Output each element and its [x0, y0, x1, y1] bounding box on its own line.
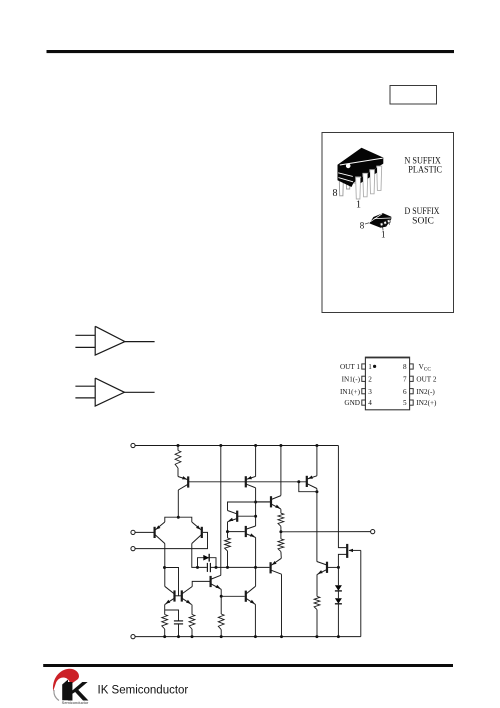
logo letter I wedge	[62, 680, 68, 701]
wire Q12 base link from Q15	[193, 580, 210, 582]
JFET Q10 source stub	[338, 554, 347, 585]
transistor Q13	[270, 562, 272, 573]
svg-text:5: 5	[403, 399, 407, 407]
node Q5 collector y567 dot	[163, 566, 166, 569]
transistor Q14	[173, 590, 175, 601]
wire Q8 base	[228, 531, 245, 533]
wire base-bus to Q3 collector (diode connect)	[299, 482, 317, 492]
svg-text:GND: GND	[344, 399, 360, 407]
svg-text:8: 8	[333, 188, 338, 199]
svg-text:8: 8	[360, 221, 365, 231]
wire Q7 base	[237, 515, 255, 517]
SOIC-8 package body	[369, 213, 391, 228]
svg-text:8: 8	[403, 363, 407, 371]
diode D1	[203, 555, 209, 561]
wire Q9 collector drop	[280, 446, 282, 496]
ground rail junction dots	[163, 635, 166, 638]
resistor R5 (Q14 emitter)	[162, 615, 168, 630]
resistor R4 (lower)	[278, 539, 284, 552]
diode D3	[335, 598, 342, 603]
ground terminal	[131, 635, 135, 639]
wire Q1 collector	[177, 490, 179, 517]
DIP-8 front-row pins	[356, 177, 361, 199]
transistor Q3	[306, 476, 308, 487]
wire C2 to ground	[178, 624, 180, 637]
wire Q11 base to diode node	[327, 566, 338, 568]
transistor Q6 (input-)	[201, 527, 203, 538]
wire Q2 emitter drop	[255, 446, 257, 477]
wire Q5 collector down	[164, 544, 166, 587]
svg-text:IK Semiconductor: IK Semiconductor	[98, 684, 189, 696]
svg-text:IN2(-): IN2(-)	[416, 388, 435, 396]
node diff tail junction	[177, 516, 180, 519]
svg-text:IN2(+): IN2(+)	[416, 399, 437, 407]
svg-text:OUT 1: OUT 1	[340, 363, 360, 371]
V+ terminal	[131, 443, 135, 447]
svg-text:1: 1	[356, 200, 361, 211]
svg-text:Semiconductor: Semiconductor	[62, 700, 89, 705]
V+ rail wire	[135, 445, 338, 447]
node Q7 emitter dot	[226, 530, 229, 533]
svg-text:OUT 2: OUT 2	[416, 375, 436, 383]
wire input1 to Q5 base	[135, 531, 153, 533]
DIP-8 package body	[338, 148, 384, 187]
node base bus dot	[297, 480, 300, 483]
transistor Q7	[236, 511, 238, 522]
wire Q12 emitter down	[220, 589, 222, 614]
wire Q13 collector to ground rail	[281, 574, 283, 636]
diff tail wire	[165, 517, 192, 522]
pin 1 index dot	[373, 365, 376, 368]
JFET Q10 gate wire with arrow	[349, 549, 361, 551]
transistor Q11	[326, 562, 328, 573]
DIP-8 left face seam lines	[338, 173, 353, 177]
wire gate down to ground rail	[360, 550, 362, 636]
wire D2-D3	[337, 591, 339, 598]
op-amp B output wire	[124, 391, 154, 393]
package outline box	[322, 133, 454, 313]
capacitor C2 top plate	[174, 620, 183, 622]
op-amp B input wires	[75, 385, 95, 387]
svg-text:7: 7	[403, 375, 407, 383]
transistor Q9	[270, 496, 272, 507]
wire Q8 emitter chain down	[255, 538, 257, 587]
SOIC pins	[380, 223, 383, 227]
y567 bus junction dots	[196, 566, 199, 569]
wire Q14/Q15 base riser	[165, 568, 179, 596]
resistor R7 (Q12 emitter)	[218, 614, 224, 630]
wire R4 to Q13 emitter	[280, 552, 282, 559]
DIP-8 package drawing back-row pins	[339, 172, 343, 196]
output terminal	[371, 530, 375, 534]
transistor Q1	[187, 476, 189, 487]
SOIC top edge highlight	[374, 217, 391, 220]
logo red swoosh	[53, 669, 79, 691]
transistor Q12	[210, 576, 212, 587]
transistor Q5 (input+)	[154, 527, 156, 538]
DIP-8 notch	[346, 164, 351, 169]
part-number box (empty)	[390, 86, 437, 105]
DIP-8 body teeth between pins	[361, 177, 363, 183]
wire Q6 collector down to y567 bus	[192, 544, 207, 568]
pin diagram IC body	[365, 357, 409, 410]
DIP-8 body top edge highlight	[340, 158, 383, 165]
wire rail drop x221	[220, 446, 222, 576]
JFET Q10 channel bar	[346, 544, 348, 558]
wire input2 to Q6 base riser	[135, 532, 207, 548]
op-amp B triangle	[95, 378, 124, 406]
resistor R1 (bias)	[177, 446, 179, 451]
svg-text:IN1(+): IN1(+)	[340, 388, 361, 396]
capacitor C2 bottom plate	[174, 623, 183, 625]
transistor Q15	[181, 590, 183, 601]
input1 terminal	[131, 530, 135, 534]
svg-text:1: 1	[368, 363, 372, 371]
wire Q15 collector riser to Q12 base	[191, 581, 194, 586]
wire Q3 collector down to Q11	[316, 489, 318, 562]
svg-text:D SUFFIX: D SUFFIX	[405, 207, 440, 217]
wire D3 to ground rail	[337, 604, 339, 637]
input2 terminal	[131, 547, 135, 551]
svg-text:VCC: VCC	[419, 363, 432, 372]
transistor Q8	[245, 526, 247, 537]
resistor R3 (Q9 emitter upper)	[280, 509, 282, 513]
y567 bus wire right of Cc to Q13 base	[211, 566, 270, 568]
svg-text:SOIC: SOIC	[412, 216, 434, 226]
svg-text:4: 4	[368, 399, 372, 407]
svg-text:6: 6	[403, 388, 407, 396]
wire Q14 emitter node	[164, 605, 166, 615]
footer rule bar	[43, 664, 453, 667]
op-amp A input wires	[75, 334, 95, 336]
svg-text:2: 2	[368, 375, 372, 383]
output wire	[281, 531, 371, 533]
wire Q2 collector chain	[255, 488, 257, 526]
wire Q16 emitter to rail	[254, 605, 256, 637]
resistor R2 (Q7 emitter)	[225, 538, 231, 551]
svg-text:IN1(-): IN1(-)	[342, 375, 361, 383]
wire Q11 emitter down	[316, 575, 318, 597]
top rule bar	[47, 50, 455, 53]
wire rail right end drop to JFET	[338, 446, 347, 548]
svg-text:PLASTIC: PLASTIC	[408, 165, 442, 175]
node output-divider dot	[280, 526, 282, 539]
node Q14 emitter jog to capacitor	[165, 610, 179, 621]
base bus wire Q1-Q2-Q3	[188, 481, 307, 483]
pin diagram left pins 1-4	[362, 364, 366, 369]
node Q3 collector dot	[315, 490, 318, 493]
transistor Q16	[245, 591, 247, 602]
diode D2	[335, 585, 342, 590]
logo gray tail arc	[54, 690, 59, 701]
diode D1 bypass loop wire	[198, 558, 217, 568]
node dots on x=255.6	[254, 501, 257, 504]
capacitor Cc right plate	[209, 563, 211, 572]
wire Q9 base	[256, 501, 271, 503]
resistor R6 (Q15 emitter)	[191, 605, 193, 615]
pin diagram right pins 5-8	[410, 364, 414, 369]
ground rail wire	[135, 636, 361, 638]
wire Q14 Q15 base stub	[174, 595, 183, 597]
wire R1 to Q1 emitter	[177, 468, 179, 477]
wire Q16 base	[221, 595, 245, 597]
capacitor Cc left plate	[206, 563, 208, 572]
wire y502 Q7 collector link	[228, 502, 272, 511]
transistor Q2	[245, 476, 247, 487]
wire R2 bottom to y567 bus	[227, 551, 229, 567]
node Q12 emitter dot	[220, 595, 223, 598]
wire Q3 emitter drop	[316, 446, 318, 476]
node diode-string top dot	[337, 566, 340, 569]
wire Q7 emitter to node	[227, 522, 229, 538]
svg-text:3: 3	[368, 388, 372, 396]
rail junction dots	[177, 444, 180, 447]
svg-text:1: 1	[381, 230, 386, 240]
op-amp A triangle	[95, 326, 125, 355]
resistor R8 (Q11 emitter)	[314, 596, 320, 609]
op-amp A output wire	[125, 341, 155, 343]
